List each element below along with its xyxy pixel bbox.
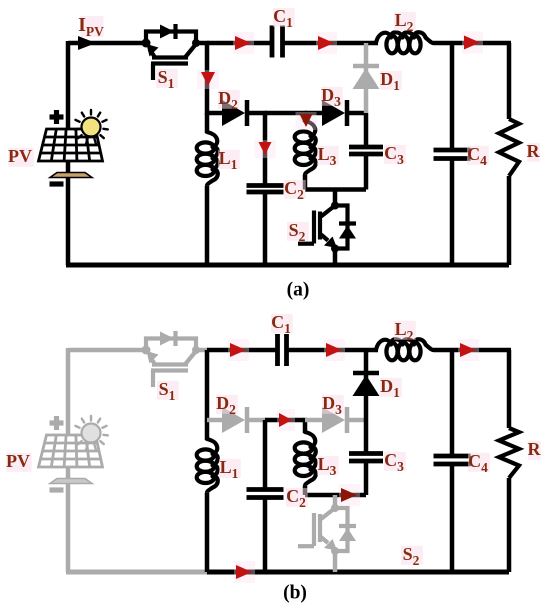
svg-text:R: R (527, 141, 541, 161)
svg-text:R: R (528, 439, 542, 459)
svg-text:(a): (a) (287, 280, 310, 301)
svg-text:PV: PV (8, 146, 32, 166)
svg-text:PV: PV (6, 451, 30, 471)
svg-text:(b): (b) (283, 583, 307, 604)
